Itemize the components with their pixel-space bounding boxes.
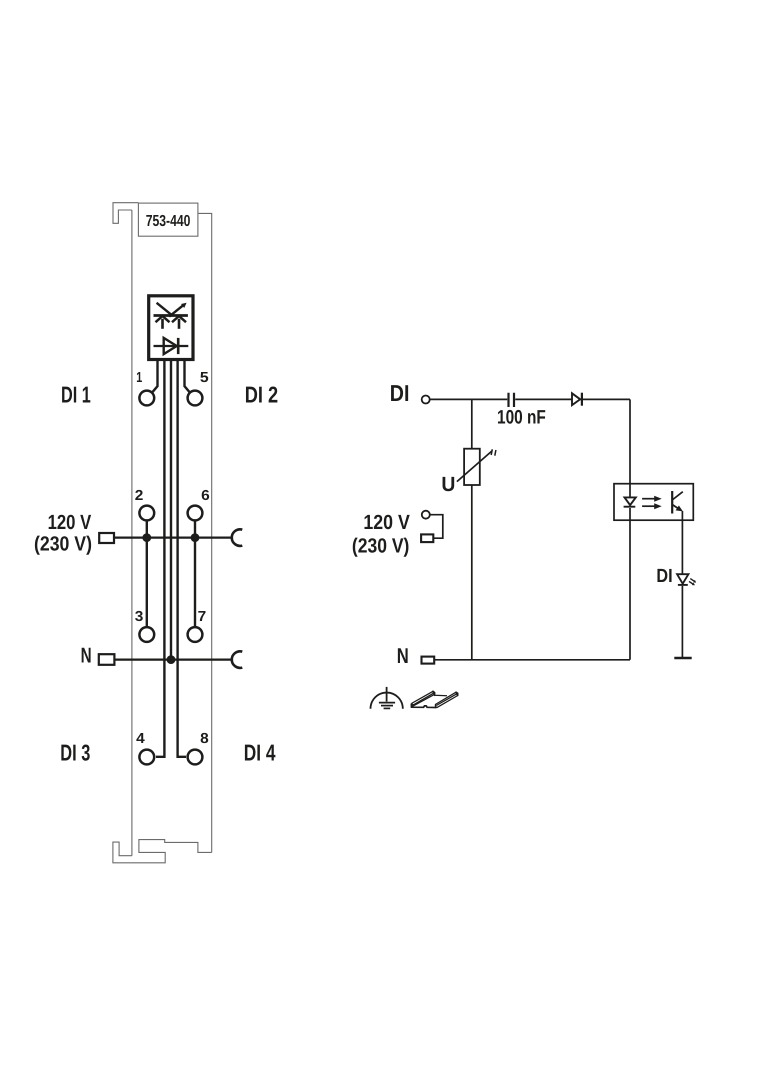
junction dot bus-terminal2 [142,533,151,542]
wire stem bundle right [178,360,186,757]
wire corner down to optocoupler [629,399,631,497]
wire capacitor to diode [515,398,630,400]
120V bus open arc [232,529,243,546]
LED DI light arrows [689,579,696,586]
optocoupler U1 box [614,484,693,521]
svg-text:(230 V): (230 V) [34,532,92,555]
DI input terminal circle [422,396,430,404]
svg-text:6: 6 [201,488,210,504]
terminal 4 [139,750,154,765]
varistor diagonal tick mark [491,449,496,455]
earth symbol bar 1 [379,702,395,704]
120V right terminal rect [421,534,433,542]
label box [138,203,198,236]
varistor U rectangle [464,449,480,485]
N bus wire [114,658,231,660]
svg-text:5: 5 [200,370,209,386]
varistor diagonal [457,451,492,482]
varistor branch wire lower [471,485,473,660]
svg-text:8: 8 [200,731,209,747]
wire DI to capacitor [430,398,507,400]
emitter wire down [681,511,683,575]
module foot outline [113,840,212,863]
svg-text:N: N [397,644,409,668]
svg-text:120 V: 120 V [48,511,92,534]
phototransistor base bar [671,491,673,514]
optocoupler LED triangle [625,497,636,505]
120V right terminal circle [422,511,430,519]
svg-text:753-440: 753-440 [146,213,191,230]
surge suppressor diagonal line [157,303,173,316]
wire stem to terminal 5 [185,360,190,393]
wire terminal 2 to bus to terminal 3 [146,522,148,627]
light arrow upper [642,496,662,502]
LED DI triangle [677,574,688,584]
wire optocoupler LED down to N [629,508,631,660]
module left body edge [131,210,133,856]
diode D0 lead [154,345,189,347]
suppressor right diac arrow [172,316,186,329]
N right terminal rect [422,657,435,664]
svg-text:N: N [81,644,92,668]
phototransistor collector [672,492,683,500]
terminal 8 [188,750,203,765]
diode D1 triangle [572,393,580,405]
earth symbol dome [371,693,403,709]
svg-text:100 nF: 100 nF [497,406,546,428]
junction dot N-middle stem [167,655,176,664]
svg-text:4: 4 [136,731,145,747]
earth symbol bar 3 [384,707,391,709]
diode D1 cathode bar [581,393,583,406]
optocoupler LED cathode bar [624,506,636,508]
symbol box U0 [149,296,193,360]
wire terminal 6 to bus to terminal 7 [194,522,196,627]
surge suppressor arrow [169,303,186,317]
svg-text:120 V: 120 V [363,511,410,534]
svg-text:2: 2 [135,488,144,504]
wire stem bundle left [156,360,164,757]
svg-text:DI 3: DI 3 [60,739,90,765]
junction dot bus-terminal6 [191,533,200,542]
module right connector stub [198,213,212,852]
svg-text:(230 V): (230 V) [352,534,410,557]
svg-text:DI: DI [656,566,672,587]
wire stem to terminal 1 [152,360,157,393]
svg-text:U: U [441,473,455,496]
earth symbol stem [386,687,388,702]
svg-text:DI 2: DI 2 [245,382,278,408]
diode D0 cathode bar [177,338,180,354]
diode D0 triangle [164,338,177,354]
terminal 7 [188,627,203,642]
svg-text:DI: DI [390,380,410,406]
wire circle to rect [430,515,443,539]
ground bar [674,657,691,660]
varistor branch wire upper [471,399,473,448]
svg-text:DI 1: DI 1 [61,382,91,408]
module outline top-left notch [113,203,138,224]
suppressor left diac arrow [156,316,170,329]
svg-text:DI 4: DI 4 [244,739,276,765]
120V bus wire [114,536,232,538]
120V terminal rectangle [99,533,114,543]
capacitor C1 plates [509,393,515,407]
terminal 6 [188,506,203,521]
light arrow lower [642,503,662,509]
svg-text:7: 7 [198,609,207,625]
earth symbol bar 2 [381,705,393,707]
svg-text:3: 3 [135,609,144,625]
wire LED to ground [681,586,683,658]
terminal 2 [139,506,154,521]
N bus open arc [232,651,243,668]
phototransistor emitter with arrow [672,505,683,512]
surge suppressor bar [154,314,188,317]
DIN rail icon [411,691,457,707]
wire stem bundle middle [170,360,172,660]
terminal 1 [139,391,154,406]
svg-text:1: 1 [136,370,142,386]
N wire [434,659,630,661]
terminal 5 [188,391,203,406]
N terminal rectangle [99,654,115,665]
terminal 3 [139,627,154,642]
LED DI cathode bar [678,584,688,586]
